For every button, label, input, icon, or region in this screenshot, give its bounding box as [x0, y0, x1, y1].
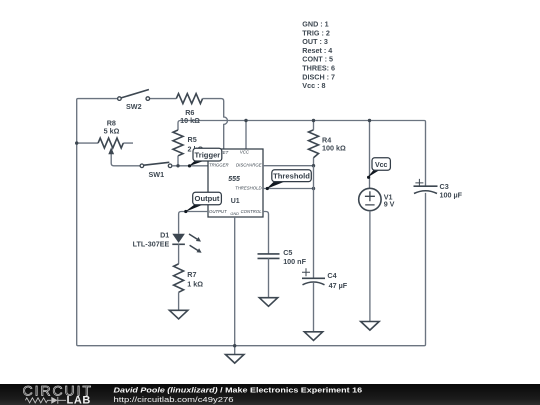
svg-text:SW2: SW2	[126, 102, 142, 111]
junction R4 top rail	[312, 119, 315, 122]
svg-text:U1: U1	[231, 198, 240, 205]
wire output pin to D1	[179, 212, 208, 234]
svg-text:C4: C4	[327, 271, 336, 280]
resistor R5	[173, 130, 183, 156]
switch SW2	[118, 90, 177, 101]
resistor R4	[309, 121, 319, 166]
wire R5 bottom lead	[177, 156, 179, 166]
svg-text:LAB: LAB	[67, 394, 91, 405]
switch SW1	[140, 162, 172, 167]
callout Trigger	[188, 148, 222, 167]
wire GND pin down through bottom rail	[234, 217, 236, 355]
ground chip GND	[226, 355, 244, 364]
capacitor C3 polarized	[414, 179, 438, 194]
svg-text:100 nF: 100 nF	[283, 257, 306, 266]
resistor R6	[176, 94, 202, 104]
node pin list	[302, 20, 335, 91]
svg-text:CONTROL: CONTROL	[241, 209, 263, 214]
svg-text:David Poole (linuxlizard) / Ma: David Poole (linuxlizard) / Make Electro…	[114, 386, 363, 395]
svg-text:TRIGGER: TRIGGER	[209, 162, 229, 167]
wire R6 to RESET pin with hop over rail	[203, 99, 228, 149]
callout Threshold	[266, 170, 312, 190]
junction threshold	[312, 187, 315, 190]
svg-text:Reset : 4: Reset : 4	[302, 46, 332, 55]
svg-text:Trigger: Trigger	[195, 150, 221, 159]
capacitor C4 polarized	[302, 268, 325, 332]
diode D1 LED	[172, 234, 201, 264]
svg-text:CONT : 5: CONT : 5	[302, 55, 333, 64]
svg-text:R7: R7	[187, 270, 196, 279]
wire VCC pin	[245, 121, 247, 150]
svg-text:47 µF: 47 µF	[329, 281, 348, 290]
junction GND bottom rail	[233, 344, 236, 347]
svg-text:http://circuitlab.com/c49y276: http://circuitlab.com/c49y276	[114, 395, 234, 404]
callout Output	[184, 192, 221, 213]
svg-text:100 kΩ: 100 kΩ	[322, 144, 346, 153]
svg-text:Vcc: Vcc	[375, 162, 388, 169]
wire V1 column from rail	[369, 121, 371, 189]
svg-text:10 kΩ: 10 kΩ	[180, 116, 200, 125]
resistor R7	[174, 264, 184, 292]
ground V1	[361, 322, 379, 331]
wire discharge pin to R4 column	[263, 165, 314, 167]
svg-text:DISCHARGE: DISCHARGE	[236, 162, 262, 167]
junction V1 rail	[368, 119, 371, 122]
svg-text:OUTPUT: OUTPUT	[209, 209, 227, 214]
svg-text:DISCH : 7: DISCH : 7	[302, 72, 335, 81]
svg-text:VCC: VCC	[240, 150, 250, 155]
wire R7 to ground	[178, 292, 180, 310]
svg-text:THRESHOLD: THRESHOLD	[235, 186, 262, 191]
svg-text:C5: C5	[283, 248, 292, 257]
svg-text:Output: Output	[195, 194, 220, 203]
svg-text:GND : 1: GND : 1	[302, 20, 328, 29]
svg-text:SW1: SW1	[149, 170, 165, 179]
callout Vcc	[367, 158, 390, 179]
junction VCC-rail	[244, 119, 247, 122]
ground C5	[259, 298, 277, 307]
wire threshold pin to R4 column	[263, 188, 314, 190]
svg-text:R5: R5	[188, 135, 197, 144]
svg-text:100 µF: 100 µF	[440, 190, 463, 199]
svg-text:Threshold: Threshold	[273, 171, 310, 180]
svg-text:D1: D1	[160, 231, 169, 240]
svg-text:555: 555	[228, 176, 240, 183]
svg-text:THRES: 6: THRES: 6	[302, 64, 335, 73]
junction R5/trigger	[176, 164, 179, 167]
wire outer loop: top-left corner, left edge, bottom rail, right edge lower	[77, 99, 426, 346]
resistor R8 potentiometer	[77, 138, 140, 166]
wire trigger net SW1 to chip	[172, 165, 208, 167]
svg-text:1 kΩ: 1 kΩ	[187, 279, 203, 288]
op-amp 555 chip U1 body	[208, 149, 263, 217]
ground C4	[304, 332, 322, 341]
svg-text:5 kΩ: 5 kΩ	[104, 126, 120, 135]
svg-text:TRIG : 2: TRIG : 2	[302, 28, 330, 37]
ground R7	[169, 310, 187, 319]
voltage source V1	[359, 188, 381, 321]
junction left edge / R8	[75, 141, 78, 144]
svg-text:OUT : 3: OUT : 3	[302, 37, 328, 46]
capacitor C5	[258, 254, 280, 298]
wire control pin to C5	[263, 212, 269, 254]
wire R4 column down to C4	[313, 166, 315, 279]
logo resistor-diode line	[25, 397, 66, 404]
wire main rail y=120.5 from R5 top to right edge down to C3	[178, 121, 426, 187]
svg-text:9 V: 9 V	[384, 199, 395, 208]
junction discharge	[312, 164, 315, 167]
svg-text:LTL-307EE: LTL-307EE	[133, 239, 170, 248]
svg-text:GND: GND	[230, 212, 239, 216]
svg-text:Vcc : 8: Vcc : 8	[302, 81, 325, 90]
